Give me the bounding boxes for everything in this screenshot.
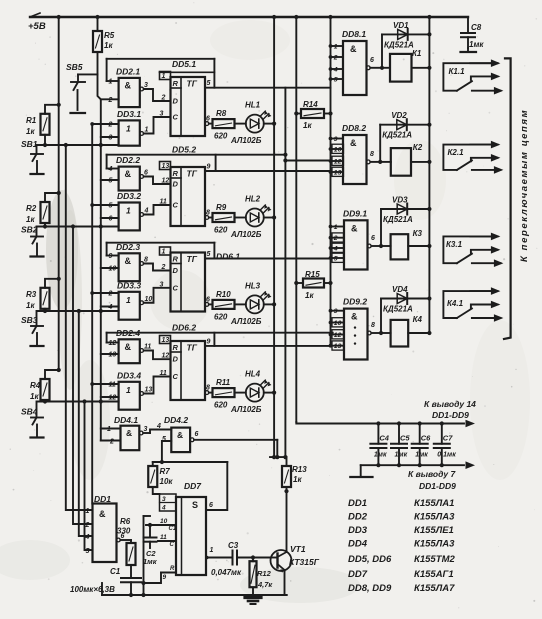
- wire DD8.2 output: [366, 160, 370, 164]
- svg-text:5: 5: [207, 80, 211, 87]
- svg-text:11: 11: [144, 344, 151, 351]
- wire feedback loop DD6.2: [107, 332, 333, 334]
- svg-text:C: C: [173, 283, 179, 292]
- wire HL2 cathode to common: [264, 217, 274, 219]
- wire R13 top node: [270, 456, 287, 458]
- svg-text:1к: 1к: [26, 301, 35, 310]
- svg-text:10к: 10к: [160, 477, 174, 486]
- svg-text:3: 3: [162, 496, 166, 503]
- svg-text:VD2: VD2: [391, 111, 407, 120]
- node +5V power rail: [30, 16, 468, 18]
- wire +5V feed column: [58, 17, 60, 370]
- svg-text:&: &: [125, 80, 132, 90]
- svg-text:1: 1: [126, 295, 131, 305]
- wire VT1 base: [271, 557, 278, 559]
- svg-text:DD3.4: DD3.4: [117, 370, 141, 380]
- svg-text:3: 3: [160, 281, 164, 288]
- svg-text:С1: С1: [110, 567, 121, 576]
- svg-text:SB4: SB4: [21, 407, 38, 417]
- svg-text:АЛ102Б: АЛ102Б: [230, 405, 262, 414]
- svg-text:8: 8: [371, 322, 375, 329]
- wire ground line pin 7: [361, 464, 464, 466]
- LED HL1 AL102B: [235, 123, 246, 125]
- svg-text:1мк: 1мк: [469, 40, 484, 49]
- svg-text:HL2: HL2: [245, 195, 261, 204]
- wire DD8.1 output: [366, 66, 370, 70]
- wire relay К1 to +5V column: [412, 67, 430, 69]
- svg-text:&: &: [125, 342, 132, 352]
- wire DD8 pin 12 feed: [285, 160, 330, 162]
- svg-text:DD1-DD9: DD1-DD9: [432, 410, 469, 420]
- wire DD2.3 output to D input: [140, 262, 144, 266]
- wire SB4 row: [45, 401, 119, 403]
- LED HL2 AL102B: [235, 217, 246, 219]
- wire R7 bottom to DD7: [153, 487, 160, 494]
- svg-text:К4: К4: [413, 315, 423, 324]
- wire DD7 pin 11: [158, 540, 176, 542]
- svg-text:2: 2: [161, 264, 166, 271]
- svg-text:4: 4: [108, 166, 113, 173]
- resistor R15 1k: [294, 281, 298, 285]
- svg-text:10: 10: [145, 296, 153, 303]
- diode VD1 KD521A: [381, 34, 383, 67]
- svg-text:1: 1: [334, 43, 338, 50]
- svg-text:DD3.2: DD3.2: [117, 191, 141, 201]
- svg-text:ТГ: ТГ: [187, 254, 198, 264]
- svg-text:DD9.1: DD9.1: [343, 208, 367, 218]
- wire relay К2 to +5V column: [411, 161, 429, 163]
- capacitor С5 1uF: [397, 421, 401, 425]
- svg-text:&: &: [125, 169, 132, 179]
- svg-text:9: 9: [109, 253, 113, 260]
- svg-text:330: 330: [117, 527, 131, 536]
- wire DD8.1 pin 4: [331, 68, 344, 70]
- svg-text:11: 11: [109, 382, 116, 389]
- svg-text:ТГ: ТГ: [187, 169, 198, 179]
- transistor VT1 KT315G: [271, 550, 292, 571]
- resistor R5 1k: [97, 17, 99, 31]
- svg-text:620: 620: [214, 312, 228, 321]
- capacitor C3 0.047uF: [232, 551, 234, 565]
- wire DD8.1 pin 1: [331, 45, 344, 47]
- svg-text:1к: 1к: [30, 392, 39, 401]
- svg-text:5: 5: [86, 548, 90, 555]
- pin box R input DD5.1: [160, 72, 171, 80]
- capacitor С4 1uF: [376, 421, 380, 425]
- svg-text:+5В: +5В: [28, 21, 46, 32]
- wire DD3.4 input pins: [92, 383, 118, 385]
- svg-text:2: 2: [108, 291, 113, 298]
- wire DD9.1 pin 4: [331, 247, 345, 249]
- wire feedback loop DD5.1: [107, 58, 215, 60]
- svg-text:&: &: [99, 509, 106, 519]
- svg-text:13: 13: [145, 387, 153, 394]
- svg-text:К выводу 14: К выводу 14: [424, 399, 476, 409]
- svg-text:1: 1: [145, 127, 149, 134]
- svg-text:11: 11: [160, 199, 167, 206]
- svg-text:DD5.1: DD5.1: [172, 59, 196, 69]
- svg-text:КД521А: КД521А: [383, 215, 413, 224]
- wire DD9.2 pin 12: [331, 334, 345, 336]
- svg-text:C: C: [173, 113, 179, 122]
- pin box R input DD5.2: [160, 162, 171, 170]
- svg-text:5: 5: [109, 178, 113, 185]
- svg-text:12: 12: [109, 340, 117, 347]
- pin box DD7 pins 3,4: [160, 494, 177, 511]
- svg-text:ТГ: ТГ: [187, 343, 198, 353]
- svg-text:R: R: [173, 169, 179, 178]
- svg-text:DD7: DD7: [348, 569, 368, 580]
- svg-text:R11: R11: [216, 378, 231, 387]
- svg-text:SB2: SB2: [21, 225, 38, 235]
- svg-text:0,047мк: 0,047мк: [211, 568, 242, 577]
- svg-text:&: &: [351, 312, 358, 322]
- pin box R input DD6.2: [160, 336, 171, 344]
- svg-text:DD3.1: DD3.1: [117, 109, 141, 119]
- svg-text:DD8.2: DD8.2: [342, 123, 366, 133]
- wire DD2.1 output to D input: [140, 87, 144, 91]
- LED HL4 AL102B: [235, 392, 246, 394]
- wire DD8.1 pin 2: [331, 56, 344, 58]
- svg-text:К4.1: К4.1: [447, 299, 464, 308]
- wire DD2.1 input pins: [107, 80, 119, 82]
- svg-text:6: 6: [109, 216, 113, 223]
- svg-text:10: 10: [334, 146, 342, 153]
- paper texture: [46, 190, 78, 310]
- svg-text:АЛ102Б: АЛ102Б: [230, 136, 262, 145]
- diode VD3 KD521A: [380, 209, 382, 246]
- svg-text:10: 10: [160, 518, 168, 525]
- svg-text:DD3.3: DD3.3: [117, 280, 141, 290]
- diode VD2 KD521A: [379, 125, 381, 162]
- svg-text:D: D: [173, 180, 179, 189]
- svg-text:DD8, DD9: DD8, DD9: [348, 583, 392, 594]
- svg-text:R14: R14: [303, 100, 318, 109]
- wire DD8.2 pin 10: [331, 148, 344, 150]
- svg-text:6: 6: [370, 57, 374, 64]
- svg-text:R15: R15: [305, 270, 320, 279]
- svg-text:R6: R6: [120, 517, 131, 526]
- svg-text:К3.1: К3.1: [446, 240, 463, 249]
- wire DD9.2 output: [367, 331, 371, 335]
- wire SB3 row: [45, 310, 119, 312]
- svg-text:&: &: [125, 256, 132, 266]
- svg-text:1: 1: [210, 547, 214, 554]
- ground for R12: [252, 588, 254, 598]
- svg-text:К2: К2: [413, 143, 423, 152]
- capacitor C2 1uF: [149, 525, 151, 538]
- svg-text:9: 9: [334, 136, 338, 143]
- svg-text:8: 8: [370, 151, 374, 158]
- svg-text:К155ТМ2: К155ТМ2: [414, 554, 456, 565]
- svg-text:100мк×6,3В: 100мк×6,3В: [70, 585, 115, 594]
- svg-text:620: 620: [214, 132, 228, 141]
- svg-text:DD3: DD3: [348, 525, 368, 536]
- svg-text:С8: С8: [471, 23, 482, 32]
- resistor R12 4.7k: [252, 558, 254, 562]
- wire DD2.4 output to D input: [140, 349, 144, 353]
- svg-text:2: 2: [108, 97, 113, 104]
- resistor R14 1k: [294, 111, 298, 115]
- svg-text:К155ЛА3: К155ЛА3: [414, 512, 455, 523]
- wire DD7 pin 10: [146, 524, 176, 526]
- svg-text:С5: С5: [400, 434, 410, 443]
- resistor R4 1k: [45, 370, 59, 379]
- wire DD9.2 pin 10: [331, 322, 345, 324]
- svg-text:С1: С1: [169, 526, 177, 532]
- svg-text:1мк: 1мк: [374, 452, 387, 459]
- svg-text:12: 12: [334, 158, 342, 165]
- svg-text:&: &: [351, 223, 358, 233]
- junction dots on SB rows: [64, 143, 68, 147]
- wire DD9.1 pin 1: [331, 226, 345, 228]
- svg-text:КД521А: КД521А: [382, 131, 412, 140]
- svg-text:R8: R8: [216, 109, 227, 118]
- wire DD9.1 pin 2: [331, 237, 345, 239]
- capacitor C1 100uF: [130, 565, 132, 578]
- svg-text:DD5, DD6: DD5, DD6: [348, 554, 392, 565]
- relay К1 coil: [382, 67, 390, 69]
- resistor R13 1k: [282, 466, 291, 487]
- svg-text:С7: С7: [443, 434, 453, 443]
- svg-text:R3: R3: [26, 290, 37, 299]
- svg-text:АЛ102Б: АЛ102Б: [230, 317, 262, 326]
- wire HL3 cathode to common: [264, 303, 274, 305]
- svg-text:12: 12: [334, 332, 342, 339]
- wire DD8.2 pin 12: [331, 160, 344, 162]
- svg-text:4: 4: [161, 505, 166, 512]
- svg-text:1: 1: [162, 249, 166, 256]
- svg-text:HL4: HL4: [245, 370, 261, 379]
- svg-text:1к: 1к: [303, 121, 312, 130]
- resistor R1 1k: [45, 105, 59, 114]
- wire DD2.2 output to D input: [140, 175, 144, 179]
- wire DD2.2 input pins: [107, 168, 119, 170]
- svg-text:&: &: [350, 138, 357, 148]
- svg-text:11: 11: [160, 370, 167, 377]
- wire DD8.2 pin 9: [331, 138, 344, 140]
- svg-text:4: 4: [108, 304, 113, 311]
- svg-text:&: &: [126, 428, 132, 438]
- svg-text:4: 4: [333, 66, 338, 73]
- wire DD3.2 output to C input: [140, 213, 144, 217]
- svg-text:1мк: 1мк: [395, 452, 408, 459]
- wire SB1 row: [45, 144, 119, 146]
- wire DD8.2 pin 13: [331, 171, 344, 173]
- svg-text:3: 3: [144, 426, 148, 433]
- wire DD3.3 input pins: [92, 292, 118, 294]
- wire DD9.2 pin 9: [331, 310, 345, 312]
- wire DD4.1 to DD4.2: [150, 430, 171, 434]
- svg-text:2: 2: [85, 522, 90, 529]
- wire LED common column: [273, 17, 275, 457]
- svg-text:8: 8: [144, 257, 148, 264]
- svg-text:4: 4: [85, 534, 90, 541]
- capacitor С7 0.1uF: [440, 421, 444, 425]
- svg-text:13: 13: [162, 337, 170, 344]
- svg-text:1к: 1к: [26, 127, 35, 136]
- svg-text:С4: С4: [379, 434, 389, 443]
- wire DD9.1 pin 5: [331, 257, 345, 259]
- wire DD2.4 input pins: [107, 342, 119, 344]
- svg-text:9: 9: [207, 164, 211, 171]
- svg-text:DD8.1: DD8.1: [342, 29, 366, 39]
- svg-text:3: 3: [160, 111, 164, 118]
- svg-text:5: 5: [207, 251, 211, 258]
- svg-text:S: S: [192, 500, 198, 510]
- svg-text:АЛ102Б: АЛ102Б: [230, 230, 262, 239]
- wire feedback loop DD6.1: [107, 242, 215, 244]
- svg-text:К155ЛА1: К155ЛА1: [414, 498, 454, 509]
- svg-text:С: С: [170, 542, 175, 548]
- svg-text:12: 12: [162, 178, 170, 185]
- svg-text:10: 10: [109, 266, 117, 273]
- wire Vcc line to pin 14: [296, 422, 464, 424]
- resistor R2 1k: [45, 193, 59, 202]
- wire HL1 cathode to common: [264, 123, 274, 125]
- svg-text:DD9.2: DD9.2: [343, 297, 367, 307]
- svg-text:К выводу 7: К выводу 7: [408, 469, 456, 479]
- relay К3 coil: [381, 245, 391, 247]
- ground for SB5: [71, 112, 86, 114]
- wire R7 to DD7 output: [153, 461, 228, 463]
- svg-text:R9: R9: [216, 203, 227, 212]
- svg-text:4: 4: [333, 245, 338, 252]
- svg-text:С6: С6: [421, 434, 431, 443]
- resistor R3 1k: [45, 279, 59, 288]
- wire DD3.2 input pins: [92, 204, 118, 206]
- svg-text:R7: R7: [160, 467, 171, 476]
- svg-text:D: D: [173, 266, 179, 275]
- svg-text:К3: К3: [413, 229, 423, 238]
- wire bus column SB3-DD1: [79, 311, 93, 536]
- svg-text:&: &: [177, 430, 183, 440]
- pin box R input DD6.1: [160, 247, 171, 255]
- wire DD4.1 output: [139, 431, 143, 435]
- wire DD1 output: [117, 538, 121, 542]
- wire DD4.2 output to R13: [190, 438, 194, 442]
- svg-text:2: 2: [333, 235, 338, 242]
- wire gate input column E: [91, 124, 93, 504]
- svg-text:HL1: HL1: [245, 101, 261, 110]
- svg-text:К155ЛА7: К155ЛА7: [414, 583, 455, 594]
- svg-text:11: 11: [160, 534, 167, 541]
- svg-text:R10: R10: [216, 290, 231, 299]
- capacitor С6 1uF: [418, 421, 422, 425]
- svg-text:R1: R1: [26, 116, 37, 125]
- wire bus column SB2-DD1: [73, 227, 93, 525]
- svg-text:КД521А: КД521А: [383, 305, 413, 314]
- wire relay +5V column: [428, 17, 430, 333]
- svg-text:1к: 1к: [26, 215, 35, 224]
- svg-text:R2: R2: [26, 204, 37, 213]
- wire relay К3 to +5V column: [408, 245, 429, 247]
- wire relay К4 to +5V column: [408, 332, 429, 334]
- svg-text:SB3: SB3: [21, 315, 38, 325]
- svg-text:DD5.2: DD5.2: [172, 145, 196, 155]
- wire DD3.4 output to C input: [140, 392, 144, 396]
- svg-text:КТ315Г: КТ315Г: [289, 557, 320, 567]
- svg-text:6: 6: [371, 235, 375, 242]
- svg-text:SB1: SB1: [21, 139, 38, 149]
- svg-text:К155ЛЕ1: К155ЛЕ1: [414, 525, 454, 536]
- svg-text:13: 13: [162, 163, 170, 170]
- wire output group bracket: [504, 58, 511, 339]
- svg-text:R: R: [173, 255, 179, 264]
- wire DD8/DD9 input bus: [330, 17, 332, 346]
- svg-text:4,7к: 4,7к: [257, 580, 273, 589]
- svg-text:620: 620: [214, 401, 228, 410]
- svg-text:1мк: 1мк: [143, 557, 158, 566]
- wire DD3.3 output to C input: [140, 301, 144, 305]
- svg-text:DD6.2: DD6.2: [172, 323, 196, 333]
- wire DD8.1 pin 5: [331, 78, 344, 80]
- wire DD9.2 pin 13: [331, 345, 345, 347]
- svg-text:12: 12: [109, 395, 117, 402]
- svg-text:2: 2: [108, 122, 113, 129]
- wire DD9.1 output: [367, 244, 371, 248]
- svg-text:6: 6: [209, 502, 213, 509]
- wire DD2.3 input pins: [107, 255, 119, 257]
- svg-text:1к: 1к: [293, 475, 302, 484]
- svg-text:1к: 1к: [104, 41, 113, 50]
- svg-text:&: &: [350, 44, 357, 54]
- wire bus column SB1-DD1: [66, 145, 93, 510]
- ground for decoupling caps: [360, 465, 362, 477]
- capacitor C8 1uF: [429, 16, 468, 18]
- wire HL4 cathode to common: [264, 392, 274, 394]
- svg-text:С3: С3: [228, 541, 239, 550]
- wire DD4.1 inputs: [101, 428, 121, 430]
- svg-text:3: 3: [109, 135, 113, 142]
- svg-text:R: R: [173, 79, 179, 88]
- svg-text:DD2: DD2: [348, 512, 368, 523]
- svg-text:6: 6: [195, 431, 199, 438]
- svg-text:13: 13: [334, 169, 342, 176]
- svg-text:9: 9: [207, 338, 211, 345]
- svg-text:9: 9: [163, 574, 167, 581]
- svg-text:R13: R13: [292, 465, 307, 474]
- wire bus column SB4-DD1: [85, 402, 93, 551]
- svg-text:VT1: VT1: [290, 544, 306, 554]
- svg-text:К155ЛА3: К155ЛА3: [414, 539, 455, 550]
- svg-text:1к: 1к: [305, 291, 314, 300]
- svg-text:3: 3: [144, 82, 148, 89]
- diode VD4 KD521A: [380, 299, 382, 334]
- ground for C8: [461, 51, 477, 53]
- svg-text:C: C: [173, 201, 179, 210]
- svg-text:C: C: [173, 372, 179, 381]
- svg-text:DD7: DD7: [184, 481, 202, 491]
- svg-text:VD4: VD4: [392, 285, 408, 294]
- svg-text:R12: R12: [257, 569, 272, 578]
- svg-text:R4: R4: [30, 381, 41, 390]
- svg-text:5: 5: [109, 203, 113, 210]
- wire DD7 pin 9 reset: [161, 572, 176, 574]
- svg-text:1: 1: [107, 426, 111, 433]
- svg-text:DD2.1: DD2.1: [116, 66, 140, 76]
- svg-text:12: 12: [162, 353, 170, 360]
- svg-text:R5: R5: [104, 31, 115, 40]
- svg-text:0,1мк: 0,1мк: [437, 452, 456, 459]
- svg-text:1: 1: [126, 123, 131, 133]
- svg-text:R: R: [170, 566, 175, 572]
- svg-text:К переключаемым цепям: К переключаемым цепям: [519, 109, 530, 262]
- svg-text:5: 5: [334, 76, 338, 83]
- wire ground rail bottom: [102, 594, 287, 596]
- wire SB2 row: [45, 226, 119, 228]
- svg-text:6: 6: [144, 170, 148, 177]
